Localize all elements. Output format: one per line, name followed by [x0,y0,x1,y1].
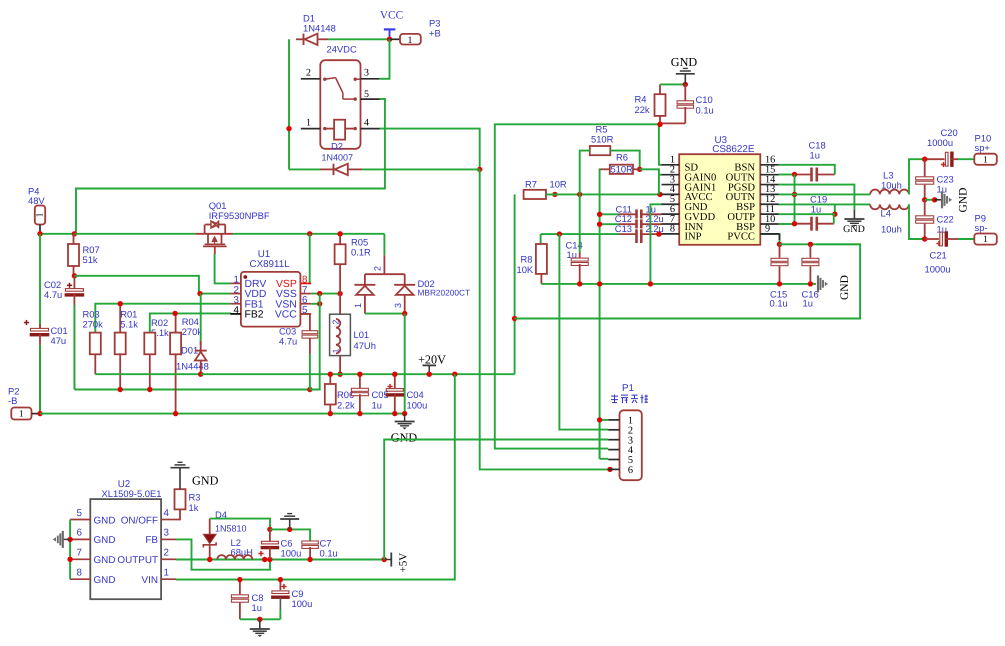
junction [607,467,612,472]
capacitor C02 4.7u [44,276,84,390]
svg-text:1k: 1k [189,502,199,513]
ground GND below pin14 wire [843,209,865,235]
junction [287,527,292,532]
junction [357,411,362,416]
svg-text:R8: R8 [521,253,533,264]
svg-text:4: 4 [364,118,369,129]
svg-text:2: 2 [373,266,383,271]
svg-text:3: 3 [164,528,170,539]
ic U2 XL1509-5.0E1 [70,479,176,599]
junction [427,372,432,377]
svg-text:D2: D2 [331,140,343,151]
wire FB1 row [95,304,230,333]
svg-text:3: 3 [393,303,403,308]
connector P1 switch board [608,383,648,480]
resistor R01 5.1k [115,304,139,390]
ground arrow speaker mid [925,188,970,213]
svg-text:C21: C21 [930,249,947,260]
svg-text:10K: 10K [517,264,534,275]
svg-text:1N4448: 1N4448 [176,360,209,371]
junction [637,167,642,172]
inductor L4 10uh [870,204,909,234]
ground GND above R3 [171,462,219,487]
capacitor C11 1u [600,203,662,218]
svg-text:1: 1 [331,348,341,353]
wire D4 top to C6 node [210,519,270,530]
svg-text:1: 1 [983,235,988,245]
svg-text:+5V: +5V [398,553,410,573]
ground GND above R4 [671,55,698,85]
svg-text:R4: R4 [635,93,647,104]
svg-text:MBR20200CT: MBR20200CT [418,288,471,298]
junction [147,387,152,392]
resistor R3 1k [175,480,201,520]
wire R5 right to R6 node [610,151,639,170]
svg-text:C04: C04 [407,389,424,400]
wire relay pin5 to 48V rail [76,99,385,234]
capacitor C7 0.1u [302,538,338,560]
wire PVCC loop [515,244,861,318]
wire +20V row left part [95,373,200,375]
svg-text:GND: GND [94,535,116,546]
junction [317,301,322,306]
resistor R06 2.2k [325,374,355,413]
svg-text:4.7u: 4.7u [279,336,297,347]
resistor R07 51k [68,234,100,276]
resistor R03 270k [83,309,104,375]
svg-text:1: 1 [36,212,46,217]
svg-text:47Uh: 47Uh [354,340,376,351]
junction [357,372,362,377]
wire +20V riser to PVCC rail [514,194,516,374]
svg-text:270k: 270k [182,326,203,337]
wire +20V to VIN of U2 [176,374,455,579]
svg-text:IRF9530NPBF: IRF9530NPBF [209,210,270,221]
svg-text:+B: +B [429,28,441,39]
svg-text:4.7u: 4.7u [44,289,62,300]
svg-text:1: 1 [306,118,311,129]
svg-text:1: 1 [19,410,24,420]
wire pin15 to C18 [779,174,795,176]
junction [808,281,813,286]
wire 48V rail to Q01 [74,233,195,235]
wire U2 gnd bus [69,520,71,580]
junction [792,172,797,177]
wire PVCC rail segment [780,243,861,245]
svg-text:510R: 510R [591,133,614,144]
diode D02 MBR20200CT [353,234,470,314]
wire FB loop [176,539,270,569]
junction [267,557,272,562]
svg-text:22k: 22k [635,104,650,115]
wire C8 C9 bottom rail [240,618,281,620]
capacitor C13 2.2u [615,223,664,243]
wire L4 to C21 node [909,204,925,239]
capacitor C12 2.2u [600,213,664,228]
capacitor C15 0.1u [770,244,789,308]
svg-text:GND: GND [839,275,851,300]
svg-text:8: 8 [77,568,83,579]
wire pin11 riser [834,204,836,214]
svg-text:1000u: 1000u [925,263,951,274]
svg-text:VCC: VCC [380,10,403,22]
junction [67,557,72,562]
relay 24VDC [301,44,380,149]
connector P3 +B [390,18,441,47]
junction [172,311,177,316]
ground arrow left of U2 [53,531,70,548]
junction [597,281,602,286]
inductor L01 47Uh [330,294,376,375]
capacitor C20 1000u [925,127,958,167]
svg-text:510R: 510R [611,164,634,175]
junction [648,281,653,286]
wire +5V riser to P1 pin3 [384,440,608,560]
junction [552,192,557,197]
wire net D1 anode vertical x=289 [288,39,290,169]
svg-text:-B: -B [8,395,17,406]
svg-text:7: 7 [77,548,82,559]
resistor R6 510R [601,152,640,175]
capacitor C04 100u [386,374,428,413]
wire GND pin5 elbow [650,204,661,284]
wire relay pin3 to VCC [379,39,390,79]
junction [777,242,782,247]
resistor R02 5.1k [144,317,169,390]
wire +20V row [201,373,515,375]
junction [118,301,123,306]
wire C19 right to pin11 [833,214,835,224]
svg-text:5.1k: 5.1k [120,319,138,330]
svg-text:L01: L01 [354,329,370,340]
svg-text:XL1509-5.0E1: XL1509-5.0E1 [102,488,162,499]
resistor R5 510R [590,123,614,155]
junction [286,126,291,131]
capacitor C01 47u [24,234,68,414]
svg-text:0.1u: 0.1u [320,548,338,559]
svg-text:0.1u: 0.1u [696,104,714,115]
svg-text:6: 6 [77,528,83,539]
wire C6/C7 top rail [270,529,310,541]
junction [262,557,267,562]
power +20V [418,352,446,374]
junction [657,122,662,127]
junction [328,411,333,416]
capacitor C16 1u [802,244,819,308]
wire GND row P2 to GND symbol [40,413,405,415]
junction [37,231,42,236]
junction [197,291,202,296]
connector P9 sp- [958,212,997,245]
svg-text:GND: GND [958,188,970,213]
svg-text:1000u: 1000u [927,137,953,148]
wire relay pin4 to node down [380,129,480,170]
wire 48V node [40,233,74,235]
junction [118,387,123,392]
junction [307,557,312,562]
wire R4 top to GND node [660,83,685,85]
svg-text:P1: P1 [622,383,634,394]
svg-text:FB2: FB2 [245,310,264,321]
svg-text:sp+: sp+ [975,142,991,153]
svg-text:VCC: VCC [275,310,297,321]
junction [198,372,203,377]
svg-text:1: 1 [408,35,413,46]
svg-text:1u: 1u [811,203,821,214]
wire VDD row from R07/C02 to U1 pin2 [74,276,230,294]
junction [72,231,77,236]
junction [577,281,582,286]
svg-text:10uh: 10uh [881,224,902,235]
svg-text:2: 2 [331,319,341,324]
ground above C6 [280,514,299,530]
ic U3 CS8622E [662,135,779,245]
svg-text:270k: 270k [83,319,104,330]
wire bsn/pgsd riser [794,175,796,224]
wire P1 pin1/pin5 riser [599,420,601,459]
junction [512,316,517,321]
junction [267,527,272,532]
junction [922,157,927,162]
resistor R05 0.1R [335,234,371,294]
wire pin10 to C19 [779,223,795,225]
junction [392,411,397,416]
junction [337,231,342,236]
capacitor C14 1u [566,194,589,284]
wire R6 left riser down [599,169,602,459]
junction [808,242,813,247]
wire D1 cathode to VCC node [328,38,390,40]
wire D2 node down to P1 pin6 [480,169,609,469]
capacitor C23 1u [916,159,954,200]
svg-text:GND: GND [94,575,116,586]
junction [922,236,927,241]
wire L3 to C20 node [909,159,925,194]
wire Q01 drain node [233,233,384,235]
svg-text:PVCC: PVCC [727,232,755,243]
svg-text:100u: 100u [407,400,428,411]
capacitor C22 1u [916,200,954,239]
svg-text:FB: FB [145,535,158,546]
wire SD pullup vertical [659,124,662,165]
transistor Q01 IRF9530NPBF [195,200,270,254]
wire pin11 row [779,213,835,215]
svg-text:VIN: VIN [142,575,158,586]
svg-text:2: 2 [306,68,311,79]
junction [173,411,178,416]
capacitor C18 1u [795,140,835,182]
diode D4 1N5810 [203,509,246,560]
ic U1 CX8911L [230,249,311,326]
capacitor C10 0.1u [660,84,714,123]
svg-text:1u: 1u [252,602,262,613]
svg-text:0.1R: 0.1R [351,247,371,258]
wire VSP feedback row y=389.5 [74,389,310,391]
svg-text:R6: R6 [616,152,628,163]
connector P4 48V [28,186,46,234]
wire VSP vertical [309,234,311,284]
junction [792,192,797,197]
wire pin13 row to L3 [779,193,871,195]
svg-text:C13: C13 [615,223,632,234]
connector P2 -B [8,386,40,420]
diode D2 1N4007 [289,140,480,175]
wire R4 rail to P1 pin4 [495,124,660,448]
junction [832,212,837,217]
svg-text:10R: 10R [550,178,567,189]
junction [477,167,482,172]
junction [932,197,937,202]
junction [777,281,782,286]
inductor L2 68uH [217,537,253,560]
ground below C8 C9 [250,619,270,637]
connector P10 sp+ [958,133,997,166]
wire INP riser to P1 pin2 [559,234,608,430]
wire pin16 to C18 [779,165,835,175]
svg-text:6: 6 [628,465,633,476]
svg-text:4: 4 [164,508,170,519]
svg-text:100u: 100u [292,598,313,609]
svg-text:1: 1 [353,303,363,308]
wire VSN link [311,303,320,305]
junction [337,372,342,377]
inductor L3 10uh [870,169,909,194]
junction [597,212,602,217]
svg-text:24VDC: 24VDC [327,44,357,55]
svg-text:0.1u: 0.1u [770,298,788,309]
diode D01 1N4448 [176,294,209,375]
junction [792,221,797,226]
svg-text:+20V: +20V [418,352,446,366]
junction [37,411,42,416]
junction [67,537,72,542]
junction [577,192,582,197]
capacitor C05 1u [351,374,388,413]
svg-text:2.2k: 2.2k [337,400,355,411]
capacitor C9 100u [271,580,312,620]
svg-text:1N4148: 1N4148 [303,23,336,34]
capacitor C19 1u [795,194,834,231]
svg-text:GND: GND [671,55,698,69]
svg-text:2: 2 [164,548,169,559]
junction [452,372,457,377]
wire FB2 row [150,313,231,332]
svg-text:1N5810: 1N5810 [215,523,247,533]
svg-text:OUTPUT: OUTPUT [117,555,158,566]
svg-text:3: 3 [364,68,369,79]
svg-text:51k: 51k [83,254,98,265]
junction [207,557,212,562]
svg-text:CX8911L: CX8911L [250,259,291,270]
wire VSS row [311,293,340,295]
wire AVCC row [546,193,660,195]
diode D1 1N4148 [296,13,336,46]
junction [656,231,661,236]
junction [597,222,602,227]
junction [382,557,387,562]
svg-text:GND: GND [192,474,219,488]
svg-text:48V: 48V [28,195,45,206]
resistor R4 22k [635,84,666,124]
junction [307,231,312,236]
wire INP row from R8 [541,233,619,235]
capacitor C6 100u [258,529,301,559]
svg-text:C10: C10 [696,94,713,105]
svg-text:1: 1 [164,568,169,579]
junction [657,192,662,197]
svg-text:47u: 47u [51,335,67,346]
resistor R04 270k [170,313,202,413]
junction [278,577,283,582]
svg-text:ON/OFF: ON/OFF [121,515,158,526]
capacitor C03 4.7u [279,314,318,390]
svg-text:GND: GND [391,431,418,445]
svg-text:sp-: sp- [975,222,988,233]
svg-text:R7: R7 [525,178,537,189]
wire VIN row [176,579,455,581]
junction [387,37,392,42]
wire Q01 gate to U1 DRV [215,254,231,283]
junction [72,273,77,278]
junction [597,417,602,422]
resistor R8 10K [517,234,547,284]
junction [307,387,312,392]
ground arrow right of C16 [818,275,851,300]
junction [328,372,333,377]
junction [392,372,397,377]
svg-text:100u: 100u [281,548,302,559]
svg-text:GND: GND [843,224,865,235]
svg-text:1N4007: 1N4007 [322,153,354,163]
power VCC [380,10,403,40]
svg-text:5: 5 [77,508,83,519]
junction [402,411,407,416]
svg-text:1u: 1u [803,298,813,309]
wire analog gnd rail [541,283,816,285]
wire R6 right to GAIN0/AVCC [640,169,659,194]
junction [257,617,262,622]
svg-text:GND: GND [94,555,116,566]
capacitor C21 1000u [925,231,959,274]
svg-text:1u: 1u [810,150,820,161]
wire pin12/L4 row [779,203,871,205]
junction [557,231,562,236]
junction [237,577,242,582]
wire PVCC elbow [760,234,779,244]
svg-text:1u: 1u [372,400,382,411]
power +5V [382,553,410,573]
wire D02 anodes to GND rail [404,314,406,414]
resistor R7 10R [524,178,567,199]
junction [683,82,688,87]
junction [317,291,322,296]
junction [922,197,927,202]
junction [402,311,407,316]
svg-text:R3: R3 [189,492,201,503]
svg-text:INP: INP [685,232,702,243]
svg-text:1: 1 [983,155,988,165]
junction [337,291,342,296]
capacitor C8 1u [231,580,263,620]
ground GND at C04 [391,414,418,445]
wire VSN loop to feedback row [310,294,320,390]
wire pin14 row to GND [779,185,855,210]
wire R5 left to AVCC row [580,151,590,195]
svg-text:GND: GND [94,515,116,526]
wire output row [176,559,384,561]
